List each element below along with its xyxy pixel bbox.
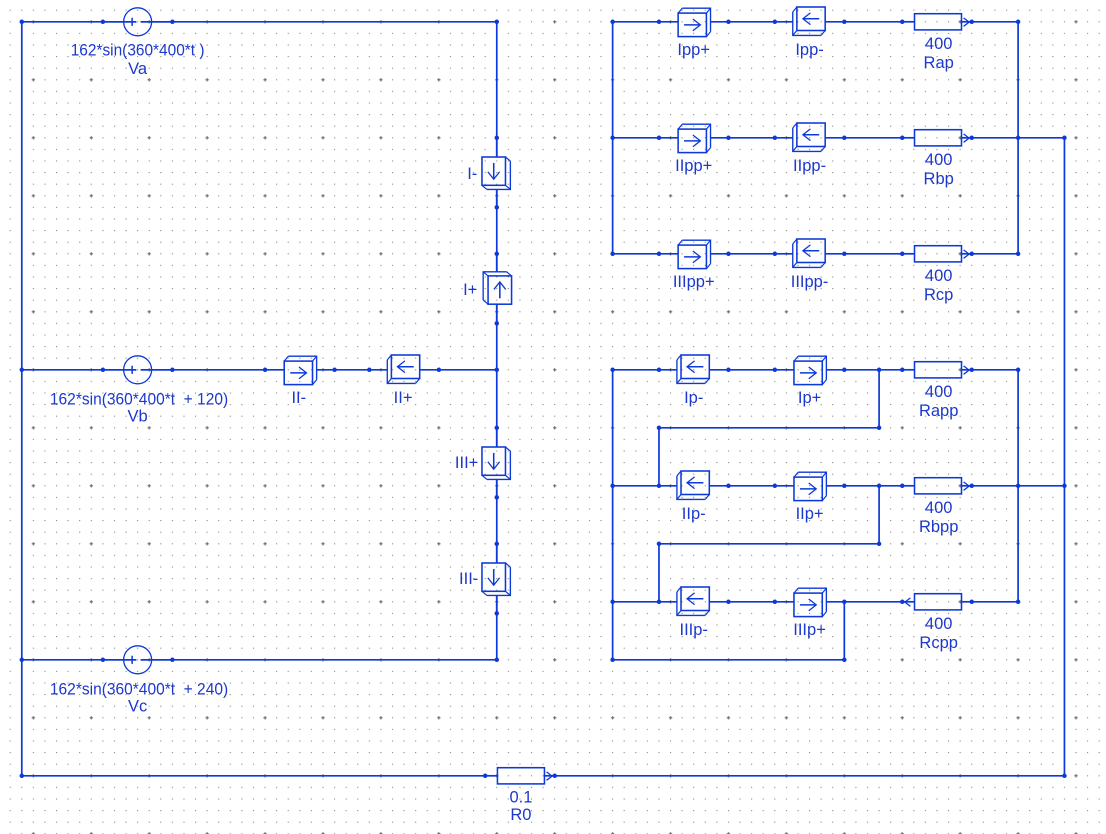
svg-text:Vc: Vc [128, 697, 147, 715]
svg-text:Rap: Rap [924, 54, 954, 72]
svg-text:Rcpp: Rcpp [919, 634, 958, 652]
svg-text:Va: Va [128, 60, 148, 78]
svg-text:400: 400 [925, 383, 953, 401]
svg-text:Rapp: Rapp [919, 402, 958, 420]
svg-text:II+: II+ [394, 389, 413, 407]
svg-text:IIIp+: IIIp+ [793, 621, 826, 639]
svg-text:Ip+: Ip+ [798, 389, 821, 407]
svg-text:II-: II- [291, 389, 306, 407]
svg-text:162*sin(360*400*t ): 162*sin(360*400*t ) [71, 41, 205, 59]
svg-text:IIIpp-: IIIpp- [791, 273, 829, 291]
svg-text:Ipp-: Ipp- [795, 41, 823, 59]
svg-text:Rbp: Rbp [924, 170, 954, 188]
svg-text:Vb: Vb [128, 407, 148, 425]
svg-text:IIp-: IIp- [682, 505, 706, 523]
svg-text:Rbpp: Rbpp [919, 518, 958, 536]
svg-text:IIp+: IIp+ [796, 505, 824, 523]
svg-text:400: 400 [925, 615, 953, 633]
svg-text:I-: I- [467, 165, 477, 183]
svg-text:400: 400 [925, 267, 953, 285]
svg-text:III+: III+ [455, 454, 478, 472]
svg-text:Rcp: Rcp [924, 286, 953, 304]
svg-text:400: 400 [925, 35, 953, 53]
svg-text:Ip-: Ip- [684, 389, 703, 407]
svg-text:162*sin(360*400*t + 120): 162*sin(360*400*t + 120) [50, 390, 228, 408]
svg-text:I+: I+ [463, 281, 477, 299]
svg-text:IIpp+: IIpp+ [675, 157, 712, 175]
svg-text:Ipp+: Ipp+ [677, 41, 710, 59]
svg-text:IIIpp+: IIIpp+ [673, 273, 715, 291]
svg-text:R0: R0 [510, 806, 531, 824]
svg-text:IIIp-: IIIp- [680, 621, 708, 639]
svg-text:400: 400 [925, 151, 953, 169]
svg-text:IIpp-: IIpp- [793, 157, 826, 175]
svg-text:162*sin(360*400*t + 240): 162*sin(360*400*t + 240) [50, 680, 228, 698]
svg-text:0.1: 0.1 [509, 788, 532, 806]
svg-text:400: 400 [925, 499, 953, 517]
svg-text:III-: III- [459, 570, 478, 588]
